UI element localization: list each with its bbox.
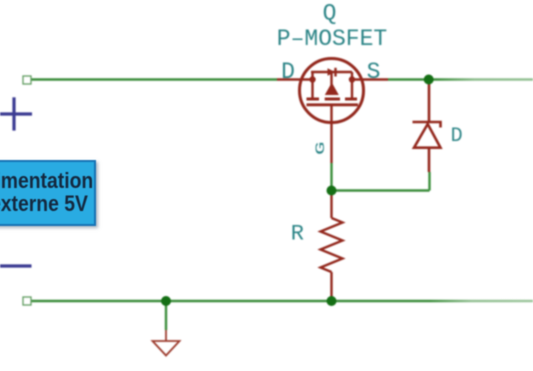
wire gate vertical <box>330 163 332 191</box>
transistor Q1 P-MOSFET body <box>277 59 388 164</box>
node top-left open terminal <box>23 76 31 84</box>
label box Alimentation externe 5V <box>0 160 96 226</box>
junction dot drain <box>309 76 315 82</box>
svg-text:P–MOSFET: P–MOSFET <box>277 26 387 52</box>
diode triangle <box>414 124 441 148</box>
left vertical (drain) <box>311 72 313 98</box>
junction ground <box>161 296 171 306</box>
junction diode top <box>424 75 434 85</box>
wire diode bottom vertical <box>428 172 430 191</box>
substrate line <box>311 71 352 73</box>
wire ground vertical <box>165 301 167 330</box>
center vertical <box>330 73 332 96</box>
svg-text:D: D <box>281 59 295 85</box>
wire bottom horizontal <box>31 300 533 302</box>
wire top right horizontal <box>388 78 533 80</box>
pin cathode lead <box>428 148 431 172</box>
pin S lead <box>352 78 388 80</box>
fade overlay top-right wire <box>436 70 533 90</box>
junction resistor bottom <box>327 296 337 306</box>
wire top horizontal <box>31 78 277 80</box>
channel bar left <box>307 98 320 101</box>
pin bottom lead <box>330 272 332 297</box>
zigzag <box>321 218 343 272</box>
body diode bar <box>334 68 336 77</box>
gate plate <box>307 103 359 106</box>
svg-text:G: G <box>313 142 328 156</box>
body diode arrow <box>328 68 336 76</box>
right vertical (source) <box>351 72 353 98</box>
ground symbol <box>153 330 180 356</box>
resistor R1 <box>321 194 343 297</box>
svg-text:Q: Q <box>323 1 337 27</box>
diode D1 <box>413 80 441 172</box>
junction gate node <box>327 186 337 196</box>
battery minus <box>0 264 32 267</box>
pin D lead <box>277 78 313 80</box>
svg-text:R: R <box>291 221 304 246</box>
pin G lead <box>330 105 332 163</box>
wire gate to diode horizontal <box>332 189 430 191</box>
fade overlay bottom-right wire <box>430 292 533 310</box>
channel bar right <box>345 98 357 101</box>
cathode bar <box>413 122 441 128</box>
channel bar center <box>325 98 340 101</box>
junction dot source <box>349 76 355 82</box>
pin top lead <box>330 194 332 218</box>
node bottom-left open terminal <box>23 297 31 305</box>
pin anode lead <box>428 80 431 123</box>
gate arrow <box>325 83 339 96</box>
svg-text:S: S <box>367 59 381 85</box>
svg-text:D: D <box>451 125 463 148</box>
battery plus <box>0 97 32 130</box>
